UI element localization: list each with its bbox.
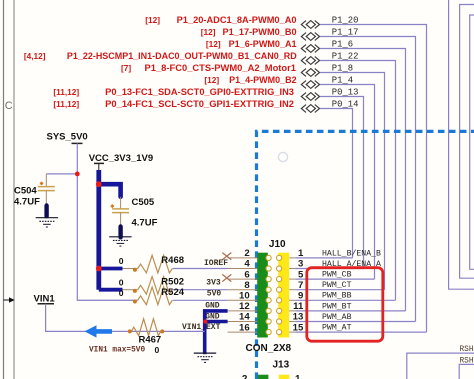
- svg-text:SYS_5V0: SYS_5V0: [47, 132, 88, 143]
- svg-text:P1_8-FC0_CTS-PWM0_A2_Motor1: P1_8-FC0_CTS-PWM0_A2_Motor1: [145, 63, 297, 73]
- svg-text:R524: R524: [161, 287, 184, 298]
- svg-text:R467: R467: [139, 335, 162, 346]
- svg-text:J13: J13: [273, 359, 290, 370]
- svg-text:C504: C504: [14, 185, 37, 196]
- svg-text:10: 10: [239, 291, 250, 302]
- svg-text:P1_22-HSCMP1_IN1-DAC0_OUT-PWM0: P1_22-HSCMP1_IN1-DAC0_OUT-PWM0_B1_CAN0_R…: [67, 51, 297, 61]
- svg-text:2: 2: [242, 374, 248, 379]
- svg-text:P1_22: P1_22: [332, 52, 359, 62]
- svg-text:PWM_CT: PWM_CT: [322, 281, 352, 290]
- svg-text:PWM_AB: PWM_AB: [322, 313, 352, 322]
- svg-text:R502: R502: [161, 276, 184, 287]
- svg-text:RSH: RSH: [460, 358, 474, 366]
- svg-text:P1_4-PWM0_B2: P1_4-PWM0_B2: [229, 75, 297, 85]
- svg-text:6: 6: [244, 269, 249, 280]
- svg-text:[11,12]: [11,12]: [53, 87, 79, 97]
- svg-text:0: 0: [119, 288, 124, 298]
- svg-text:[11,12]: [11,12]: [53, 99, 79, 109]
- svg-text:8: 8: [244, 280, 250, 291]
- svg-text:PWM_AT: PWM_AT: [322, 324, 352, 333]
- svg-text:P1_6: P1_6: [332, 40, 353, 50]
- svg-text:16: 16: [239, 322, 250, 333]
- svg-text:P1_17: P1_17: [332, 28, 359, 38]
- svg-text:0: 0: [155, 345, 160, 355]
- svg-text:14: 14: [239, 312, 250, 323]
- svg-text:P1_20-ADC1_8A-PWM0_A0: P1_20-ADC1_8A-PWM0_A0: [177, 15, 297, 25]
- svg-text:P0_13: P0_13: [332, 88, 359, 98]
- svg-text:P1_20: P1_20: [332, 16, 359, 26]
- svg-text:4.7UF: 4.7UF: [14, 196, 40, 207]
- svg-text:C505: C505: [132, 197, 155, 208]
- svg-text:0: 0: [119, 256, 124, 266]
- svg-text:P0_13-FC1_SDA-SCT0_GPI0-EXTTRI: P0_13-FC1_SDA-SCT0_GPI0-EXTTRIG_IN3: [105, 87, 294, 97]
- svg-text:CON_2X8: CON_2X8: [246, 343, 292, 354]
- svg-text:HALL_B/ENA_B: HALL_B/ENA_B: [322, 248, 381, 258]
- svg-text:[7]: [7]: [121, 63, 131, 73]
- svg-text:RSH: RSH: [460, 346, 474, 354]
- svg-text:P1_17-PWM0_B0: P1_17-PWM0_B0: [223, 27, 297, 37]
- svg-text:PWM_CB: PWM_CB: [322, 271, 352, 280]
- svg-text:[12]: [12]: [201, 27, 216, 37]
- svg-text:[12]: [12]: [204, 75, 219, 85]
- svg-text:C: C: [5, 100, 13, 112]
- svg-text:VIN1 max=5V0: VIN1 max=5V0: [89, 346, 145, 354]
- svg-text:12: 12: [239, 301, 250, 312]
- svg-text:3V3: 3V3: [206, 279, 221, 288]
- svg-text:VCC_3V3_1V9: VCC_3V3_1V9: [89, 153, 153, 164]
- svg-text:4.7UF: 4.7UF: [132, 218, 158, 229]
- svg-text:P1_6-PWM0_A1: P1_6-PWM0_A1: [229, 39, 297, 49]
- svg-text:4: 4: [244, 259, 250, 270]
- svg-text:R468: R468: [161, 255, 184, 266]
- svg-text:VIN1: VIN1: [34, 293, 56, 304]
- svg-text:J10: J10: [269, 239, 286, 250]
- svg-text:PWM_BT: PWM_BT: [322, 302, 352, 311]
- svg-text:P1_8: P1_8: [332, 64, 353, 74]
- svg-text:0: 0: [119, 277, 124, 287]
- svg-text:IOREF: IOREF: [204, 259, 228, 268]
- svg-text:5V0: 5V0: [207, 289, 222, 298]
- svg-text:P1_4: P1_4: [332, 76, 353, 86]
- svg-text:2: 2: [244, 248, 249, 259]
- svg-text:PWM_BB: PWM_BB: [322, 292, 352, 301]
- svg-text:P0_14: P0_14: [332, 100, 359, 110]
- svg-text:1: 1: [295, 374, 301, 379]
- svg-text:[12]: [12]: [206, 39, 221, 49]
- svg-text:[4,12]: [4,12]: [24, 51, 46, 61]
- svg-text:P0_14-FC1_SCL-SCT0_GPI1-EXTTRI: P0_14-FC1_SCL-SCT0_GPI1-EXTTRIG_IN2: [105, 99, 294, 109]
- svg-text:[12]: [12]: [145, 15, 160, 25]
